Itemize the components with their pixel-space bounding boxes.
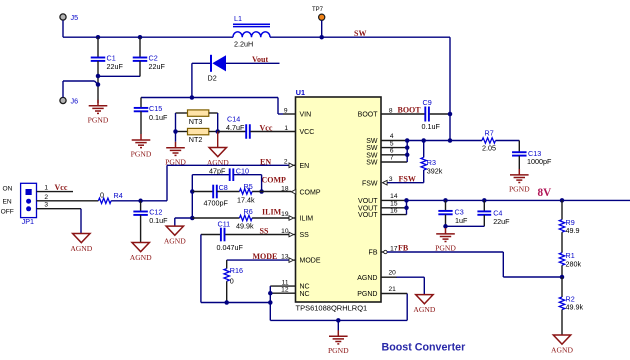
net-tie NT3 [176, 112, 188, 114]
junction [224, 300, 229, 305]
svg-text:17.4k: 17.4k [237, 196, 255, 205]
junction [443, 198, 448, 203]
svg-text:392k: 392k [427, 167, 443, 176]
wire [261, 175, 263, 192]
svg-text:C14: C14 [227, 114, 240, 123]
svg-text:AGND: AGND [413, 305, 435, 314]
svg-text:13: 13 [281, 254, 289, 261]
svg-text:8: 8 [389, 108, 393, 115]
wire [175, 132, 177, 142]
wire [406, 200, 408, 214]
net-tie NT2 [176, 131, 188, 133]
svg-text:VOUT: VOUT [358, 212, 378, 219]
wire [446, 225, 485, 227]
svg-text:PGND: PGND [328, 346, 349, 355]
ground PGND (NT2) [166, 142, 185, 156]
wire [227, 259, 289, 261]
pin 16 VOUT stub [381, 214, 407, 216]
wire [166, 165, 168, 201]
svg-text:NT3: NT3 [189, 117, 203, 126]
pin 3 stub JP1 [37, 208, 82, 210]
wire [226, 62, 280, 64]
svg-text:22uF: 22uF [107, 62, 124, 71]
pin 17 FB [381, 251, 384, 253]
pin 13 MODE arrow [289, 258, 294, 263]
wire [141, 97, 278, 99]
svg-text:7: 7 [390, 155, 394, 162]
svg-text:L1: L1 [234, 14, 242, 23]
svg-text:TP7: TP7 [312, 7, 324, 13]
svg-text:AGND: AGND [164, 237, 186, 246]
pin 19 ILIM arrow [289, 216, 294, 221]
svg-text:J5: J5 [71, 13, 79, 22]
svg-text:C4: C4 [493, 208, 502, 217]
wire [167, 164, 289, 166]
svg-text:2.05: 2.05 [482, 143, 496, 152]
capacitor C2 [139, 37, 141, 57]
pin 12 NC stub [270, 292, 295, 294]
svg-text:FSW: FSW [362, 180, 378, 187]
junction [259, 189, 264, 194]
resistor R16 [226, 260, 228, 269]
svg-text:SS: SS [260, 227, 269, 236]
capacitor C10 [192, 174, 229, 176]
pin 5 SW stub [381, 147, 407, 149]
wire [191, 175, 193, 192]
svg-text:4700pF: 4700pF [204, 199, 229, 208]
svg-text:Vcc: Vcc [55, 183, 68, 192]
pin 3 FSW arrow [383, 180, 388, 185]
resistor R2 [561, 277, 563, 297]
node SW wire corner [449, 37, 451, 114]
svg-text:Vcc: Vcc [260, 123, 273, 132]
svg-text:4: 4 [390, 133, 394, 140]
svg-text:20: 20 [389, 270, 397, 277]
svg-text:0.1uF: 0.1uF [149, 113, 168, 122]
svg-text:FB: FB [369, 250, 378, 257]
junction [268, 291, 273, 296]
svg-text:280k: 280k [566, 259, 582, 268]
ground PGND (C13) [510, 169, 529, 183]
pin 6 SW stub [381, 154, 407, 156]
svg-text:2: 2 [284, 158, 288, 165]
resistor R5 [217, 191, 240, 193]
svg-text:U1: U1 [296, 88, 305, 97]
capacitor C12 [140, 201, 142, 211]
ground AGND (NT2) [209, 148, 226, 157]
pin 10 SS arrow [289, 232, 294, 237]
op-amp U1 TPS61088QRHLRQ1 body [296, 97, 382, 302]
capacitor C15 [140, 98, 142, 108]
wire [98, 75, 140, 77]
junction [173, 129, 178, 134]
wire [406, 141, 408, 163]
svg-text:AGND: AGND [130, 253, 152, 262]
pin 14 VOUT stub [381, 199, 407, 201]
wire [445, 226, 447, 228]
svg-text:8V: 8V [538, 187, 552, 199]
wire [561, 310, 563, 335]
wire [191, 63, 193, 97]
svg-text:19: 19 [281, 211, 289, 218]
svg-text:2: 2 [44, 194, 48, 201]
wire [191, 192, 193, 219]
junction [560, 198, 565, 203]
svg-text:JP1: JP1 [22, 217, 34, 226]
svg-text:R6: R6 [244, 207, 253, 216]
ground PGND (U1) [329, 330, 348, 344]
wire [387, 182, 424, 184]
junction [482, 198, 487, 203]
connector J6 [60, 97, 66, 103]
svg-text:16: 16 [390, 207, 398, 214]
junction [138, 199, 143, 204]
diode D2 [192, 62, 211, 64]
wire [269, 286, 271, 320]
ground AGND (C12) [132, 243, 149, 252]
ground PGND (C15) [132, 134, 151, 148]
wire [217, 113, 219, 132]
svg-text:1uF: 1uF [455, 216, 468, 225]
svg-text:1: 1 [44, 185, 48, 192]
capacitor C14 [218, 131, 246, 133]
svg-text:TPS61088QRHLRQ1: TPS61088QRHLRQ1 [296, 303, 368, 312]
junction [96, 82, 101, 87]
pin 1 stub JP1 [37, 191, 74, 193]
wire [175, 113, 177, 132]
pin 20 AGND wire [381, 276, 397, 278]
svg-text:PGND: PGND [509, 184, 530, 193]
svg-text:COMP: COMP [262, 175, 287, 184]
resistor R9 [561, 200, 563, 219]
ground AGND (JP1) [73, 234, 90, 243]
svg-text:0.1uF: 0.1uF [422, 122, 441, 131]
svg-text:2.2uH: 2.2uH [234, 40, 253, 49]
connector J5 [60, 14, 66, 20]
svg-text:12: 12 [281, 287, 289, 294]
svg-text:FSW: FSW [399, 174, 416, 183]
wire [337, 320, 339, 330]
wire [62, 20, 64, 37]
capacitor C8 [192, 191, 213, 193]
ground AGND (R6) [166, 226, 183, 235]
svg-text:VOUT: VOUT [358, 198, 378, 205]
pin 7 SW stub [381, 161, 407, 163]
svg-text:21: 21 [389, 286, 397, 293]
pin 4 SW stub [381, 140, 407, 142]
junction [560, 275, 565, 280]
wire [270, 319, 407, 321]
svg-text:NC: NC [300, 291, 310, 298]
junction [190, 189, 195, 194]
junction [405, 145, 410, 150]
svg-text:NT2: NT2 [189, 135, 203, 144]
pin 9 VIN stub [283, 113, 296, 115]
junction [190, 95, 195, 100]
junction [190, 216, 195, 221]
junction [405, 153, 410, 158]
wire [407, 140, 482, 142]
svg-text:22uF: 22uF [149, 62, 166, 71]
wire (8V rail) [407, 199, 630, 201]
svg-text:C15: C15 [149, 104, 162, 113]
resistor R7 [482, 138, 496, 143]
svg-text:C8: C8 [219, 183, 228, 192]
resistor R4 [98, 198, 111, 203]
svg-text:ON: ON [3, 186, 13, 193]
svg-text:0: 0 [230, 277, 234, 286]
svg-text:ILIM: ILIM [262, 208, 282, 217]
svg-text:PGND: PGND [131, 150, 152, 159]
svg-text:VIN: VIN [300, 112, 312, 119]
svg-text:SW: SW [366, 138, 378, 145]
junction [336, 318, 341, 323]
capacitor C9 [381, 113, 425, 115]
junction [319, 35, 324, 40]
svg-text:4.7uF: 4.7uF [226, 123, 245, 132]
svg-text:Boost Converter: Boost Converter [382, 342, 466, 354]
svg-text:BOOT: BOOT [358, 112, 379, 119]
capacitor C13 [512, 151, 527, 153]
svg-text:PGND: PGND [435, 243, 456, 252]
junction [268, 300, 273, 305]
svg-text:R3: R3 [427, 158, 436, 167]
ground PGND (C1) [89, 100, 108, 114]
svg-text:5: 5 [390, 140, 394, 147]
svg-text:1: 1 [284, 125, 288, 132]
wire [174, 218, 176, 226]
junction [138, 35, 143, 40]
svg-text:PGND: PGND [357, 291, 377, 298]
capacitor C4 [483, 200, 485, 211]
svg-text:SW: SW [366, 160, 378, 167]
pin 15 VOUT stub [381, 207, 407, 209]
junction [421, 138, 426, 143]
capacitor C1 [97, 37, 99, 57]
svg-text:49.9k: 49.9k [566, 302, 584, 311]
svg-text:SW: SW [354, 29, 366, 38]
svg-text:Vout: Vout [252, 55, 268, 64]
svg-text:18: 18 [281, 185, 289, 192]
svg-text:SW: SW [366, 152, 378, 159]
pin 18 COMP arrow [291, 190, 296, 195]
svg-text:0.1uF: 0.1uF [149, 216, 168, 225]
svg-text:SS: SS [300, 232, 310, 239]
pin 11 NC stub [270, 285, 295, 287]
svg-text:3: 3 [389, 176, 393, 183]
svg-text:R4: R4 [114, 191, 123, 200]
junction [96, 35, 101, 40]
svg-text:ILIM: ILIM [300, 215, 314, 222]
wire [111, 200, 167, 202]
svg-text:47pF: 47pF [209, 166, 226, 175]
svg-text:NC: NC [300, 284, 310, 291]
svg-text:AGND: AGND [551, 346, 573, 355]
svg-text:R5: R5 [244, 182, 253, 191]
resistor R6 [192, 217, 239, 219]
junction [404, 198, 409, 203]
svg-text:0: 0 [100, 190, 104, 199]
svg-text:14: 14 [390, 193, 398, 200]
junction [96, 74, 101, 79]
wire [270, 36, 450, 38]
svg-text:J6: J6 [71, 97, 79, 106]
junction [443, 224, 448, 229]
svg-text:49.9: 49.9 [566, 226, 580, 235]
wire [80, 209, 82, 234]
junction [404, 206, 409, 211]
wire [321, 20, 323, 37]
ground PGND (C3) [436, 228, 455, 242]
svg-text:C9: C9 [423, 98, 432, 107]
svg-text:R16: R16 [230, 266, 243, 275]
svg-text:R7: R7 [485, 129, 494, 138]
wire [217, 132, 219, 148]
connector JP1 [21, 183, 37, 217]
wire [201, 302, 270, 304]
ground AGND (R2) [553, 335, 570, 344]
svg-text:9: 9 [284, 108, 288, 115]
svg-text:AGND: AGND [70, 244, 92, 253]
svg-text:MODE: MODE [300, 258, 321, 265]
capacitor C3 [445, 200, 447, 210]
wire [496, 140, 520, 142]
svg-text:SW: SW [366, 145, 378, 152]
svg-text:EN: EN [300, 163, 310, 170]
svg-text:OFF: OFF [1, 208, 14, 215]
svg-text:11: 11 [282, 280, 289, 287]
pin 21 PGND wire [406, 294, 408, 321]
svg-text:VCC: VCC [300, 129, 315, 136]
junction [405, 138, 410, 143]
junction [448, 138, 453, 143]
svg-text:1000pF: 1000pF [527, 157, 552, 166]
resistor R1 [561, 232, 563, 253]
svg-text:D2: D2 [208, 74, 217, 83]
ground AGND (U1) [416, 295, 433, 304]
wire [175, 217, 193, 219]
pin 2 EN arrow [289, 163, 294, 168]
svg-text:C11: C11 [218, 220, 231, 229]
junction [215, 129, 220, 134]
wire [449, 114, 451, 141]
junction [448, 112, 453, 117]
capacitor C11 [201, 234, 221, 236]
svg-text:10: 10 [281, 228, 289, 235]
svg-text:BOOT: BOOT [398, 105, 422, 114]
svg-text:FB: FB [398, 244, 409, 253]
pin 2 stub JP1 [37, 200, 99, 202]
svg-text:AGND: AGND [357, 275, 377, 282]
svg-text:22uF: 22uF [493, 217, 510, 226]
svg-text:0.047uF: 0.047uF [217, 243, 244, 252]
svg-text:C10: C10 [236, 166, 249, 175]
resistor R3 [423, 141, 425, 158]
wire [200, 235, 202, 303]
wire [387, 251, 503, 253]
svg-text:PGND: PGND [88, 115, 109, 124]
svg-text:3: 3 [44, 202, 48, 209]
svg-text:6: 6 [390, 148, 394, 155]
svg-text:49.9k: 49.9k [236, 222, 254, 231]
svg-text:EN: EN [3, 198, 12, 205]
wire [62, 81, 64, 97]
wire [561, 265, 563, 277]
svg-text:COMP: COMP [300, 189, 321, 196]
